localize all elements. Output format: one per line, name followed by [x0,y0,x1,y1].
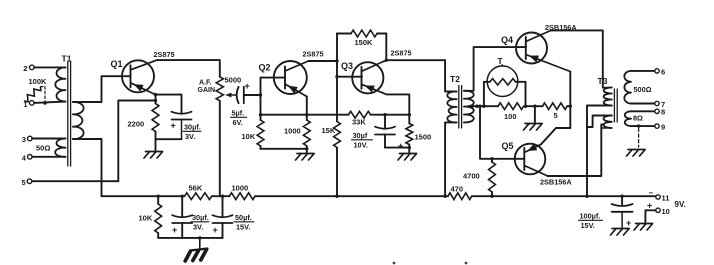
T3 secondary 8ohm winding [625,111,631,126]
wire 150K right to Q3 collector node [385,34,387,61]
wire Q4 emitter to 5-ohm node [569,72,571,107]
wire cap to Q2 base divider [260,78,262,115]
wire Q3 collector to T2 [386,59,445,61]
resistor 470 (rail) [448,193,472,200]
resistor 1000 (Q2 emitter) [305,113,308,116]
transistor Q3 [352,62,383,93]
capacitor 30uf 3V (Q1 emitter bypass) [156,95,182,113]
svg-text:−: − [649,189,654,198]
svg-text:2S875: 2S875 [391,49,412,58]
svg-text:100µf.: 100µf. [580,212,601,221]
ground (Q2) [306,149,308,153]
svg-text:2S875: 2S875 [154,50,175,59]
svg-text:30µf.: 30µf. [184,123,201,132]
svg-text:15K: 15K [322,126,336,135]
wire T3 primary center to rail [587,106,612,197]
wire Q3 emitter to 1500 [387,94,410,123]
terminal 11 (minus 9V) [656,195,660,199]
capacitor 50uf 15V (decoupling) [222,196,224,216]
T2 core [458,86,460,129]
ground (100uf) [612,228,629,230]
wire Q2 emitter down [306,97,308,115]
capacitor 30uf 3V (decoupling) [181,196,183,216]
svg-text:5000: 5000 [225,76,242,85]
resistor 33K [349,111,371,118]
svg-text:9V.: 9V. [675,200,686,209]
svg-text:+: + [213,225,218,235]
svg-text:10: 10 [662,207,670,216]
potentiometer 5000 A.F. GAIN [216,77,223,101]
resistor 100K (dashed optional) [25,87,41,102]
svg-text:56K: 56K [189,183,203,192]
wire to terminal 6 [631,70,655,72]
terminal 1 [30,101,35,106]
resistor 56K (rail) [185,193,212,200]
transistor Q4 [516,33,547,64]
wire T1 secondary top to Q1 base [73,76,131,102]
ground (bias row) [533,105,536,108]
wire resistor bottoms [261,148,307,150]
svg-text:100K: 100K [29,77,48,86]
resistor 1000 (rail) [229,193,255,200]
svg-text:50µf.: 50µf. [235,213,252,222]
wire T1 secondary bottom to rail [73,139,102,196]
svg-text:33K: 33K [352,118,366,127]
capacitor 30uf 10V [383,113,386,116]
svg-text:+: + [245,81,250,91]
svg-text:5: 5 [22,178,26,187]
terminal 4 [28,155,33,160]
T2 secondary winding [464,91,474,123]
terminal 9 [655,124,659,128]
svg-text:5: 5 [554,111,558,120]
svg-text:2S875: 2S875 [303,50,324,59]
terminal 2 [30,65,35,70]
wire T2 secondary top to Q4 base [464,47,526,91]
svg-text:3: 3 [22,135,26,144]
svg-text:9: 9 [661,123,665,132]
wire terminal5 run [32,180,119,182]
wire terminal3 to T1 [32,138,65,140]
T1 core [67,62,69,167]
transistor Q2 [274,61,307,94]
svg-text:100: 100 [504,112,517,121]
node Q2 base divider [259,113,262,116]
wire Q1 collector to pot [157,60,220,77]
svg-text:+: + [647,201,652,211]
negative supply rail [102,195,185,197]
wire emitter branch to input common [118,101,155,182]
wire Q4 collector to T3 [551,30,603,87]
dashed ground tap on 8ohm winding [637,124,640,127]
svg-text:2200: 2200 [128,120,145,129]
wire cap/1500 bottoms [385,147,409,149]
wire to terminal 7 [631,103,655,105]
svg-text:8Ω: 8Ω [633,113,643,122]
svg-text:Q4: Q4 [501,35,513,45]
resistor 15K [334,122,341,148]
svg-text:10K: 10K [139,214,153,223]
resistor 10K (Q2 base) [260,115,262,120]
wire Q2 collector to Q3 base / 150K / 15K column [336,34,338,122]
wire to terminal 8 [631,110,655,112]
svg-text:+: + [626,218,631,228]
rail junction dots [157,195,160,198]
svg-text:11: 11 [662,194,670,203]
T1 secondary winding [73,102,84,139]
caption remnant dots (scan artifact) [393,262,396,265]
svg-text:1000: 1000 [232,183,249,192]
svg-text:15V.: 15V. [236,222,250,231]
svg-text:A.F.: A.F. [199,80,212,87]
svg-text:Q5: Q5 [502,141,514,151]
terminal 6 [655,69,659,73]
resistor 100 [498,103,523,110]
svg-text:6V.: 6V. [233,118,243,127]
terminal 3 [28,136,33,141]
terminal 8 [655,109,659,113]
svg-text:3V.: 3V. [185,132,195,141]
wire terminal1 to T1 [34,102,65,103]
resistor 2200 [155,95,157,104]
svg-text:Q2: Q2 [259,63,271,73]
T3 primary lower winding [603,116,611,129]
svg-text:10V.: 10V. [354,140,368,149]
resistor 4700 [490,157,493,160]
wire T2 primary bottom to rail [445,122,457,196]
svg-text:150K: 150K [355,38,374,47]
emitter row Q2-Q3 [261,114,349,116]
capacitor 100uf 15V [621,196,623,205]
wire cap to 2200 bottom [156,138,182,140]
svg-text:15V.: 15V. [581,221,595,230]
svg-text:Q1: Q1 [111,59,123,69]
wire Q5 collector to T3 [548,125,604,177]
T1 primary upper winding [55,67,65,101]
svg-text:5µf.: 5µf. [232,109,245,118]
resistor 150K feedback [337,33,351,35]
svg-text:1500: 1500 [415,132,432,141]
svg-text:10K: 10K [242,132,256,141]
resistor 10K (decoupling) [157,196,159,204]
chassis ground (main, heavy) [199,238,201,249]
dashed link 100K [41,86,46,88]
ground (Q1 emitter) [155,139,157,150]
svg-text:3V.: 3V. [193,222,203,231]
terminal 10 (plus, grounded) [656,208,660,212]
svg-text:4700: 4700 [463,172,480,181]
svg-text:+: + [171,121,176,131]
svg-text:2SB156A: 2SB156A [540,177,572,186]
svg-text:30µf.: 30µf. [192,213,209,222]
svg-text:T2: T2 [450,74,460,84]
terminal 5 [27,179,32,184]
wire Q5 emitter up to 5-ohm node [541,128,570,144]
svg-text:1: 1 [23,100,27,109]
svg-text:GAIN: GAIN [198,87,216,94]
svg-text:2: 2 [23,64,27,73]
svg-text:Q3: Q3 [341,61,353,71]
svg-text:30µf: 30µf [353,131,368,140]
pot wiper arrow [228,94,236,96]
wire T2 primary top [445,60,457,91]
resistor 1500 [406,124,413,145]
T2 primary winding [447,91,456,122]
svg-text:500Ω: 500Ω [634,85,652,94]
wire decoupling bottoms [158,237,222,239]
wire T2 center tap row [469,105,498,107]
svg-text:+: + [398,141,403,151]
svg-text:6: 6 [661,67,665,76]
svg-text:T3: T3 [598,76,608,86]
wire terminal2 to T1 [34,66,65,68]
T3 core [613,89,615,122]
T3 primary upper winding [604,88,612,106]
svg-text:1000: 1000 [284,127,301,136]
node Q1 emitter [154,93,157,96]
resistor 5 [543,103,568,110]
transistor Q5 [515,144,546,175]
capacitor 5uf 6V coupling [237,87,239,103]
transistor Q1 [122,60,154,92]
wire terminal4 to T1 [32,156,65,158]
thermistor T [482,105,485,108]
terminal 7 [655,101,659,105]
T3 secondary 500ohm winding [624,71,631,104]
wire T2 secondary bottom to Q5 base [478,105,481,108]
wire Q3 base [337,76,362,78]
svg-text:+: + [172,225,177,235]
T1 primary lower winding [55,139,65,157]
wire pot bottom to rail [219,101,221,196]
wire Q2 collector [309,60,338,62]
svg-text:8: 8 [661,108,665,117]
svg-text:50Ω: 50Ω [36,144,50,153]
ground (Q3) [408,148,410,153]
svg-text:470: 470 [451,185,464,194]
wire to terminal 9 [631,125,655,127]
